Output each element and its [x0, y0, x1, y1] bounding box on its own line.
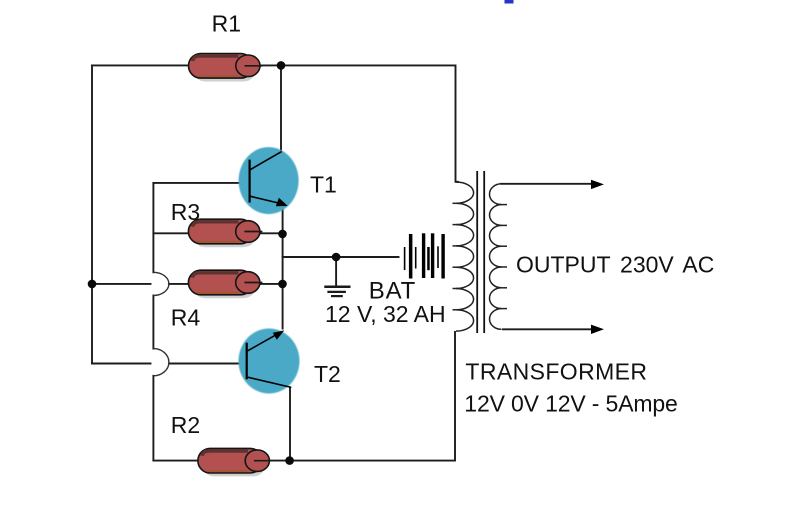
svg-text:T2: T2	[314, 361, 341, 387]
svg-text:R1: R1	[212, 11, 241, 37]
svg-text:R2: R2	[171, 412, 200, 438]
svg-text:T1: T1	[310, 172, 337, 198]
svg-text:R3: R3	[171, 199, 200, 225]
svg-text:TRANSFORMER: TRANSFORMER	[465, 358, 647, 384]
svg-text:OUTPUT 230V AC: OUTPUT 230V AC	[516, 251, 714, 277]
svg-text:12 V, 32 AH: 12 V, 32 AH	[325, 301, 446, 327]
svg-text:12V 0V 12V - 5Ampe: 12V 0V 12V - 5Ampe	[464, 391, 677, 417]
svg-text:R4: R4	[171, 304, 201, 330]
